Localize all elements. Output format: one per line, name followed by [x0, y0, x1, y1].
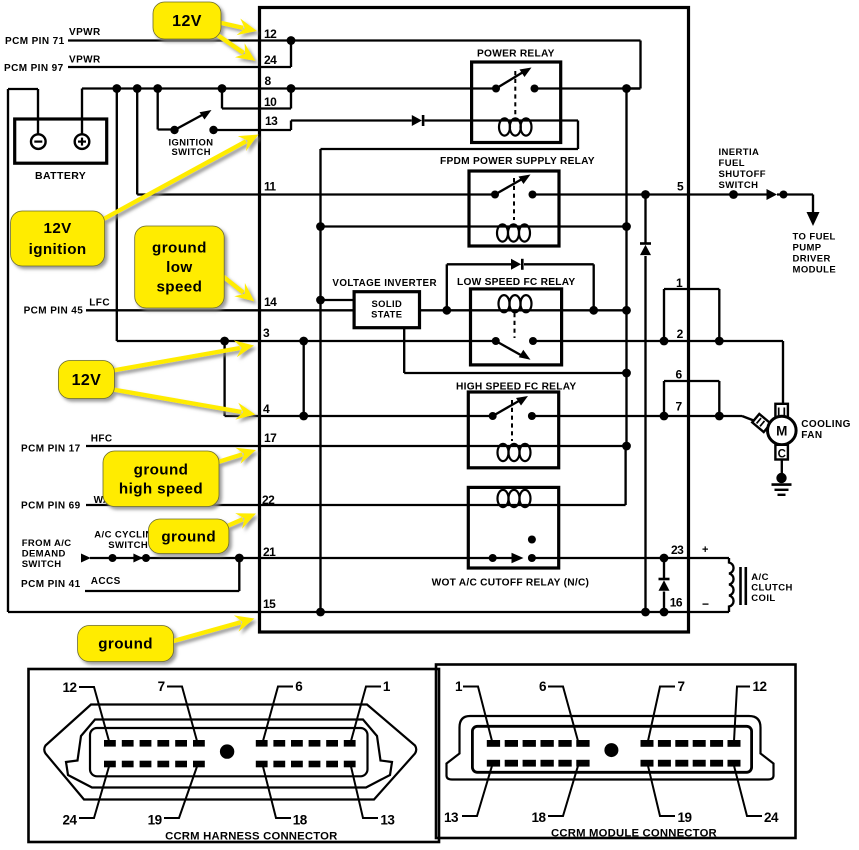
svg-text:FAN: FAN — [801, 430, 822, 441]
wire WAC pin 22 to WOT relay coil — [86, 504, 559, 506]
svg-text:23: 23 — [671, 543, 684, 557]
svg-text:C: C — [778, 449, 786, 461]
diode D3 (low speed coil flyback) — [446, 264, 448, 310]
svg-text:COIL: COIL — [751, 593, 775, 604]
svg-text:VPWR: VPWR — [69, 27, 101, 38]
wire ignition switch to pin 13 — [214, 129, 292, 131]
callout 12V (pins 3/4) — [110, 348, 240, 371]
diode D2 (clamp on pin 5 net) — [644, 195, 646, 244]
svg-text:M: M — [776, 424, 787, 439]
svg-text:DEMAND: DEMAND — [22, 549, 66, 560]
svg-text:13: 13 — [380, 813, 395, 828]
svg-text:15: 15 — [263, 597, 276, 611]
svg-text:DRIVER: DRIVER — [793, 254, 831, 265]
svg-text:1: 1 — [383, 679, 391, 694]
svg-text:PCM PIN 97: PCM PIN 97 — [4, 63, 64, 74]
wire inverter output to low speed relay coil — [420, 309, 471, 311]
wire 12V internal rail — [625, 89, 627, 447]
svg-text:HFC: HFC — [91, 434, 113, 445]
svg-text:POWER RELAY: POWER RELAY — [477, 49, 555, 60]
inertia fuel shutoff switch S2 — [729, 190, 738, 199]
svg-text:+: + — [702, 544, 708, 556]
wire power relay coil return — [561, 119, 578, 121]
svg-text:1: 1 — [455, 679, 463, 694]
callout ground low speed (pin 14) — [220, 274, 243, 293]
svg-text:18: 18 — [293, 813, 308, 828]
svg-text:ACCS: ACCS — [91, 576, 121, 587]
svg-text:19: 19 — [148, 813, 162, 828]
wire pin 11 to FPDM relay contact — [137, 193, 495, 195]
svg-text:2: 2 — [677, 327, 684, 341]
svg-text:7: 7 — [158, 679, 165, 694]
wire pin 6 bracket — [664, 380, 719, 382]
wire pins 3-4 internal jumper — [303, 341, 305, 416]
svg-text:SHUTOFF: SHUTOFF — [719, 169, 766, 180]
ground (cooling fan) — [776, 473, 786, 483]
wire pin 2 down to fan motor — [782, 341, 784, 404]
svg-text:3: 3 — [263, 326, 270, 340]
svg-text:19: 19 — [678, 810, 692, 825]
svg-text:low: low — [166, 259, 193, 276]
wire VPWR pin 71 to pin 12 — [68, 39, 291, 41]
wire low speed output pin 2 to cooling fan — [533, 340, 783, 342]
svg-text:SOLID: SOLID — [371, 298, 402, 309]
CCRM module connector panel — [436, 665, 796, 839]
svg-text:VOLTAGE INVERTER: VOLTAGE INVERTER — [332, 278, 437, 289]
svg-text:5: 5 — [677, 180, 684, 194]
svg-text:12V: 12V — [72, 372, 102, 389]
wire fan to ground — [781, 460, 783, 474]
callout ground high speed (pin 17) — [215, 454, 242, 463]
wire power relay output to VPWR junction — [535, 87, 641, 89]
WOT relay contacts (N/C) — [489, 554, 497, 562]
harness connector pins (top row) — [104, 740, 116, 747]
svg-text:SWITCH: SWITCH — [22, 559, 62, 570]
svg-text:PCM PIN 71: PCM PIN 71 — [5, 36, 65, 47]
battery B1 — [15, 119, 107, 163]
wire bus to pin 11 — [136, 89, 138, 195]
wire battery negative to ground return — [37, 89, 39, 134]
svg-text:12V: 12V — [43, 220, 72, 237]
svg-text:10: 10 — [264, 95, 277, 109]
harness connector index hole — [220, 744, 234, 758]
svg-text:SWITCH: SWITCH — [172, 146, 211, 157]
svg-text:PCM PIN 69: PCM PIN 69 — [21, 501, 81, 512]
svg-text:14: 14 — [264, 295, 277, 309]
svg-text:−: − — [702, 597, 709, 611]
svg-text:6: 6 — [539, 679, 547, 694]
svg-text:PUMP: PUMP — [793, 243, 822, 254]
svg-text:SWITCH: SWITCH — [719, 180, 759, 191]
svg-text:PCM PIN 17: PCM PIN 17 — [21, 444, 81, 455]
svg-text:7: 7 — [676, 400, 683, 414]
svg-text:COOLING: COOLING — [801, 419, 850, 430]
svg-text:FPDM POWER SUPPLY RELAY: FPDM POWER SUPPLY RELAY — [440, 156, 595, 167]
wire 12V drop to pin 4 — [223, 341, 225, 416]
svg-text:speed: speed — [156, 279, 202, 296]
svg-text:7: 7 — [678, 679, 685, 694]
svg-text:ground: ground — [152, 240, 207, 257]
wire high speed coil right to 12V rail — [559, 445, 627, 447]
svg-text:13: 13 — [265, 114, 278, 128]
svg-text:VPWR: VPWR — [69, 55, 101, 66]
svg-text:18: 18 — [532, 810, 547, 825]
callout 12V (pins 12/24) — [217, 22, 243, 28]
svg-text:13: 13 — [444, 810, 459, 825]
svg-text:ground: ground — [134, 461, 189, 478]
svg-text:12: 12 — [264, 27, 277, 41]
wire pin 12 / pin 24 jumper — [290, 41, 292, 68]
svg-text:12V: 12V — [172, 13, 202, 30]
svg-text:LOW SPEED FC RELAY: LOW SPEED FC RELAY — [457, 277, 575, 288]
svg-text:4: 4 — [263, 402, 270, 416]
svg-text:24: 24 — [764, 810, 779, 825]
WOT A/C cutoff relay K5 — [468, 487, 558, 568]
svg-text:11: 11 — [264, 180, 276, 194]
module connector shell — [447, 716, 774, 780]
svg-text:BATTERY: BATTERY — [35, 170, 86, 182]
wire pin 1 bracket — [664, 288, 719, 290]
wire pin 13 to power relay coil — [291, 119, 412, 121]
wire inverter 12V feed (bottom pin) — [403, 328, 405, 373]
svg-text:6: 6 — [295, 679, 303, 694]
module pin labels — [463, 687, 492, 742]
svg-text:STATE: STATE — [371, 309, 402, 320]
callout 12V ignition (pin 13) — [100, 141, 246, 221]
svg-text:24: 24 — [264, 53, 277, 67]
module connector pins (bottom row) — [487, 760, 500, 767]
svg-text:CCRM MODULE CONNECTOR: CCRM MODULE CONNECTOR — [551, 828, 717, 840]
cooling fan motor M1 — [775, 404, 788, 418]
diode D1 (pin 13 feed) — [412, 115, 422, 126]
wire 12V bus to pin 3 — [116, 89, 118, 342]
harness pin labels — [79, 687, 109, 741]
svg-text:LFC: LFC — [89, 298, 110, 309]
harness connector shell — [44, 705, 416, 800]
svg-text:ground: ground — [98, 636, 153, 653]
diode D4 (A/C clutch flyback) — [663, 558, 665, 579]
svg-text:12: 12 — [753, 679, 767, 694]
A/C clutch coil L1 — [729, 558, 734, 612]
svg-text:SWITCH: SWITCH — [108, 540, 148, 551]
wire A/C demand switch to pin 21 / WOT contact — [81, 554, 91, 563]
svg-text:INERTIA: INERTIA — [719, 147, 760, 158]
wire pin 10 stub from bus — [221, 89, 223, 109]
svg-text:6: 6 — [676, 368, 683, 382]
wire WOT coil right to 12V rail — [559, 504, 626, 506]
svg-text:CLUTCH: CLUTCH — [751, 583, 792, 594]
harness connector pins (bottom row) — [104, 761, 116, 768]
svg-text:17: 17 — [264, 431, 277, 445]
svg-text:8: 8 — [265, 74, 272, 88]
svg-text:16: 16 — [670, 596, 683, 610]
svg-text:24: 24 — [63, 813, 78, 828]
svg-text:MODULE: MODULE — [793, 265, 837, 276]
svg-text:A/C: A/C — [751, 572, 769, 583]
wire 12V battery bus — [82, 87, 496, 89]
svg-text:PCM PIN 45: PCM PIN 45 — [24, 306, 84, 317]
svg-text:FROM A/C: FROM A/C — [22, 538, 72, 549]
svg-text:12: 12 — [63, 680, 77, 695]
CCRM harness connector panel — [29, 669, 440, 842]
wire VPWR net to power relay contact (top run) — [291, 39, 641, 41]
svg-text:ground: ground — [161, 528, 216, 545]
wire coil-return rail to ground bus — [319, 149, 321, 612]
wire VPWR pin 97 to pin 24 — [68, 66, 291, 68]
wire FPDM coil left to coil-return rail — [316, 222, 325, 231]
svg-text:PCM PIN 41: PCM PIN 41 — [21, 579, 81, 590]
wire WOT output pin 23 to A/C clutch coil — [532, 557, 729, 559]
module connector pins (top row) — [487, 740, 500, 747]
callout ground (pin 15) — [170, 622, 241, 642]
svg-text:ignition: ignition — [29, 241, 87, 258]
wire FPDM coil right to 12V rail — [559, 225, 627, 227]
wire HFC pin 17 to high speed coil — [86, 445, 559, 447]
ignition switch S1 — [170, 126, 178, 134]
wire low speed coil right to 12V rail — [562, 309, 627, 311]
CCRM module box — [260, 8, 689, 633]
wire ACCS to pin 21 net — [85, 590, 239, 592]
callout ground (pin 22) — [225, 519, 243, 527]
wire bus to ignition switch — [157, 89, 159, 130]
module connector index hole — [604, 743, 618, 757]
wire FPDM output / pin 5 to inertia switch — [533, 193, 767, 195]
wire LFC pin 14 to inverter — [86, 309, 354, 311]
wire battery positive to 12V bus — [81, 89, 83, 135]
wire coil-return rail to inverter — [316, 296, 325, 305]
svg-text:high speed: high speed — [119, 480, 203, 497]
svg-text:WOT A/C CUTOFF RELAY (N/C): WOT A/C CUTOFF RELAY (N/C) — [432, 578, 590, 589]
svg-text:TO FUEL: TO FUEL — [793, 232, 836, 243]
svg-text:CCRM HARNESS CONNECTOR: CCRM HARNESS CONNECTOR — [165, 831, 337, 843]
svg-text:FUEL: FUEL — [719, 158, 745, 169]
wire high speed output pin 7 to cooling fan — [532, 415, 742, 417]
